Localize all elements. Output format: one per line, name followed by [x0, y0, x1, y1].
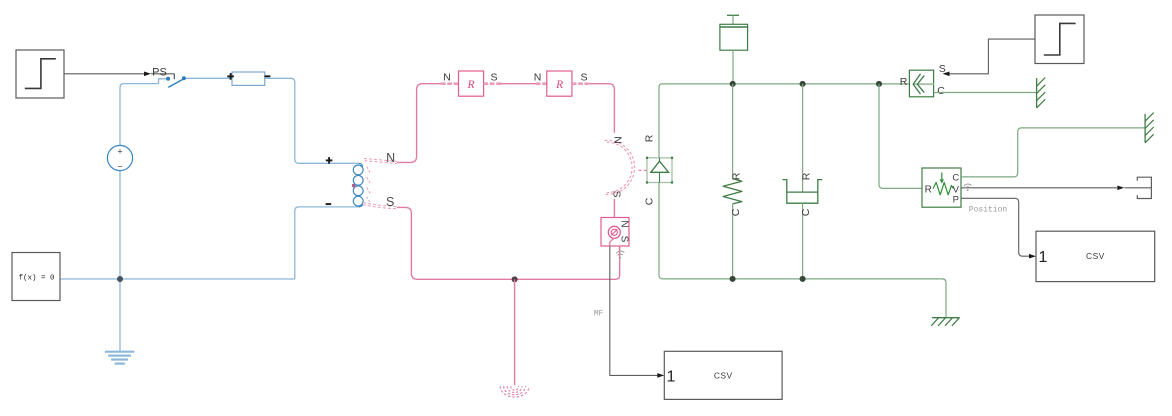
- svg-text:MF: MF: [594, 310, 604, 319]
- svg-text:1: 1: [1039, 249, 1048, 266]
- svg-text:R: R: [555, 79, 563, 91]
- svg-text:N: N: [534, 71, 542, 83]
- svg-text:S: S: [580, 71, 587, 83]
- svg-text:CSV: CSV: [714, 371, 733, 381]
- svg-text:f(x) = 0: f(x) = 0: [18, 275, 55, 283]
- svg-text:R: R: [731, 172, 743, 180]
- svg-text:1: 1: [667, 369, 676, 386]
- svg-text:N: N: [618, 220, 629, 227]
- svg-text:PS: PS: [152, 67, 167, 79]
- svg-text:S: S: [939, 63, 946, 75]
- svg-text:R: R: [801, 172, 813, 180]
- svg-text:S: S: [618, 236, 629, 243]
- svg-text:C: C: [800, 208, 812, 216]
- svg-text:CSV: CSV: [1086, 251, 1105, 261]
- svg-text:C: C: [937, 85, 945, 97]
- svg-text:C: C: [730, 208, 742, 216]
- svg-text:+: +: [117, 147, 122, 157]
- svg-text:R: R: [644, 134, 656, 142]
- svg-text:S: S: [611, 190, 623, 197]
- svg-text:S: S: [490, 71, 497, 83]
- svg-text:S: S: [386, 195, 394, 209]
- svg-text:Position: Position: [969, 206, 1008, 215]
- svg-text:C: C: [952, 172, 959, 183]
- svg-text:R: R: [466, 79, 474, 91]
- svg-text:N: N: [443, 71, 451, 83]
- svg-text:−: −: [117, 162, 122, 172]
- svg-text:R: R: [925, 184, 932, 195]
- svg-text:N: N: [386, 151, 395, 165]
- svg-text:N: N: [611, 136, 623, 144]
- svg-text:C: C: [644, 197, 656, 205]
- svg-text:P: P: [953, 195, 959, 206]
- svg-text:R: R: [900, 76, 908, 88]
